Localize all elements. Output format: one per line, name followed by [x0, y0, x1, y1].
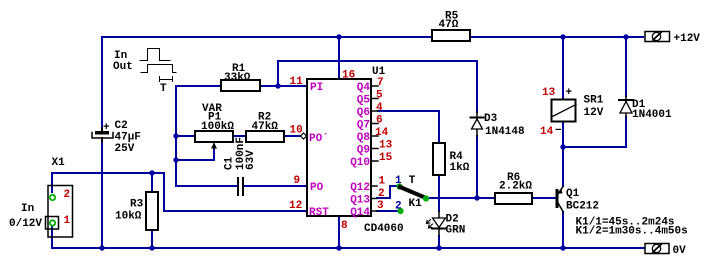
K1 contact 2 dot	[397, 208, 403, 214]
waveform sketch	[140, 49, 170, 61]
svg-text:4: 4	[376, 102, 383, 114]
wire pin 16 to rail	[338, 37, 340, 79]
X1 pad 2	[49, 194, 56, 201]
svg-text:12: 12	[289, 200, 302, 212]
wire C2 branch lower	[101, 141, 103, 248]
resistor R2	[246, 131, 284, 142]
wire D3 bottom to switch node	[476, 136, 478, 198]
wire pin11 node up and over to D3	[278, 61, 477, 112]
resistor R1	[221, 80, 260, 91]
svg-text:T: T	[160, 83, 167, 95]
svg-text:0/12V: 0/12V	[9, 218, 42, 230]
svg-text:100kΩ: 100kΩ	[201, 121, 234, 133]
svg-text:CD4060: CD4060	[364, 223, 404, 235]
svg-text:2: 2	[378, 188, 385, 200]
svg-text:+12V: +12V	[674, 33, 701, 45]
svg-text:Q7: Q7	[357, 120, 370, 132]
capacitor C2	[95, 131, 109, 135]
wire Q14 pin3 to K1 contact 2	[377, 210, 398, 212]
wire X1 pin2 to RST pin12	[52, 173, 307, 211]
svg-text:Q1: Q1	[566, 188, 580, 200]
svg-text:13: 13	[542, 87, 556, 99]
wire R3 top	[151, 173, 153, 192]
wire D2 to 0V rail	[438, 236, 440, 248]
svg-text:10: 10	[290, 125, 303, 137]
svg-text:2.2kΩ: 2.2kΩ	[499, 181, 532, 193]
svg-text:Q13: Q13	[350, 195, 370, 207]
svg-text:Q10: Q10	[350, 157, 370, 169]
svg-text:9: 9	[294, 175, 301, 187]
svg-text:16: 16	[342, 70, 355, 82]
wire relay node to D1	[563, 117, 626, 147]
IC U1 CD4060 box	[307, 79, 371, 216]
wire RC node vertical	[175, 86, 177, 186]
svg-text:1N4148: 1N4148	[485, 126, 525, 138]
svg-text:C1: C1	[224, 156, 236, 170]
svg-text:47kΩ: 47kΩ	[252, 121, 279, 133]
svg-text:14: 14	[540, 126, 554, 138]
svg-text:Q6: Q6	[357, 107, 370, 119]
svg-text:Q9: Q9	[357, 145, 370, 157]
svg-text:13: 13	[379, 140, 393, 152]
K1 blade end dot	[423, 195, 429, 201]
svg-text:2: 2	[395, 201, 402, 213]
svg-text:Q5: Q5	[357, 95, 371, 107]
svg-text:1: 1	[64, 215, 71, 227]
wire R2 right to pin 10	[284, 135, 301, 137]
svg-text:33kΩ: 33kΩ	[224, 72, 251, 84]
svg-text:Q12: Q12	[350, 182, 370, 194]
capacitor C1	[237, 178, 239, 195]
svg-text:C2: C2	[115, 120, 128, 132]
svg-text:PI: PI	[310, 82, 323, 94]
svg-text:In: In	[21, 203, 34, 215]
svg-text:1N4001: 1N4001	[632, 109, 672, 121]
svg-text:X1: X1	[52, 157, 66, 169]
connector X1	[48, 186, 73, 238]
svg-text:25V: 25V	[115, 143, 135, 155]
resistor R3	[146, 192, 158, 230]
junction dots	[336, 34, 341, 39]
svg-text:T: T	[409, 175, 416, 187]
svg-text:15: 15	[379, 152, 393, 164]
svg-text:Q14: Q14	[350, 207, 370, 219]
resistor R6	[495, 193, 532, 204]
svg-text:K1: K1	[409, 198, 423, 210]
diode D3 1N4148	[476, 112, 478, 136]
wire X1 pin1 to 0V rail	[51, 225, 53, 248]
svg-text:−: −	[555, 125, 562, 137]
svg-text:+: +	[566, 87, 573, 99]
K1 contact 1 dot	[396, 183, 402, 189]
terminal 0V	[645, 244, 669, 254]
svg-text:+: +	[103, 122, 110, 134]
resistor R5	[432, 30, 470, 41]
svg-text:Out: Out	[113, 61, 133, 73]
svg-text:8: 8	[341, 220, 348, 232]
potentiometer P1	[195, 131, 233, 142]
wire top +12V rail	[102, 36, 643, 38]
wire K1 common to R6	[428, 197, 495, 199]
wire P1 to R2	[233, 135, 246, 137]
svg-text:47Ω: 47Ω	[439, 19, 459, 31]
wire C1 right to pin 9	[245, 185, 307, 187]
wire R6 to Q1 base	[532, 197, 556, 199]
svg-text:5: 5	[376, 90, 383, 102]
wire R1 right to pin 11	[260, 85, 307, 87]
resistor R4	[433, 143, 445, 175]
svg-text:2: 2	[64, 189, 71, 201]
svg-text:6: 6	[376, 115, 383, 127]
switch K1 blade	[400, 187, 426, 198]
diode D1 1N4001	[625, 96, 627, 117]
LED D2 GRN	[438, 211, 440, 236]
svg-text:63V: 63V	[245, 150, 257, 170]
svg-text:0V: 0V	[673, 245, 687, 257]
svg-text:3: 3	[377, 200, 384, 212]
wire R4 bottom to D2	[438, 176, 440, 211]
wire C2 branch upper	[101, 37, 103, 130]
svg-text:47µF: 47µF	[115, 132, 141, 144]
svg-text:1: 1	[395, 175, 402, 187]
wire Q1 collector down	[562, 212, 564, 248]
wire Q6 pin4 to R4	[378, 111, 439, 142]
wire relay coil bottom	[562, 122, 564, 147]
svg-text:RST: RST	[309, 207, 329, 219]
svg-text:PO´: PO´	[309, 133, 329, 145]
svg-text:D3: D3	[484, 113, 498, 125]
svg-text:R3: R3	[130, 199, 144, 211]
wire node to C1 left	[176, 185, 236, 187]
svg-text:Q8: Q8	[357, 132, 371, 144]
wire node to R1 left	[176, 85, 221, 87]
svg-text:1: 1	[379, 176, 386, 188]
relay coil SR1	[552, 100, 576, 122]
wire relay coil top	[562, 37, 564, 99]
pin 10 inversion diamond	[301, 133, 307, 139]
svg-text:10kΩ: 10kΩ	[115, 211, 142, 223]
svg-text:Q4: Q4	[357, 82, 371, 94]
wire R3 bottom	[151, 230, 153, 248]
wire Q13 pin2 to K1 contact 1	[377, 186, 398, 198]
svg-text:PO: PO	[310, 182, 324, 194]
wire bottom 0V rail	[53, 247, 644, 249]
X1 pad 1	[49, 219, 56, 226]
svg-text:7: 7	[377, 77, 384, 89]
wire pin 8 to rail	[338, 216, 340, 248]
potentiometer P1 wiper arrow	[213, 144, 215, 148]
svg-text:11: 11	[290, 76, 304, 88]
svg-text:12V: 12V	[584, 107, 604, 119]
svg-text:GRN: GRN	[446, 225, 466, 237]
transistor Q1 BC212	[556, 189, 559, 208]
pin stubs right side	[371, 85, 378, 87]
wire P1 left stub	[176, 135, 195, 137]
wire Q1 emitter up	[562, 147, 564, 186]
wire D1 top to +12V rail	[625, 37, 627, 96]
svg-text:1kΩ: 1kΩ	[450, 162, 470, 174]
svg-text:BC212: BC212	[566, 201, 599, 213]
svg-text:SR1: SR1	[584, 95, 604, 107]
svg-text:K1/2=1m30s..4m50s: K1/2=1m30s..4m50s	[576, 226, 688, 238]
terminal +12V	[645, 32, 670, 42]
svg-text:14: 14	[375, 127, 389, 139]
wire P1 wiper	[176, 148, 214, 160]
